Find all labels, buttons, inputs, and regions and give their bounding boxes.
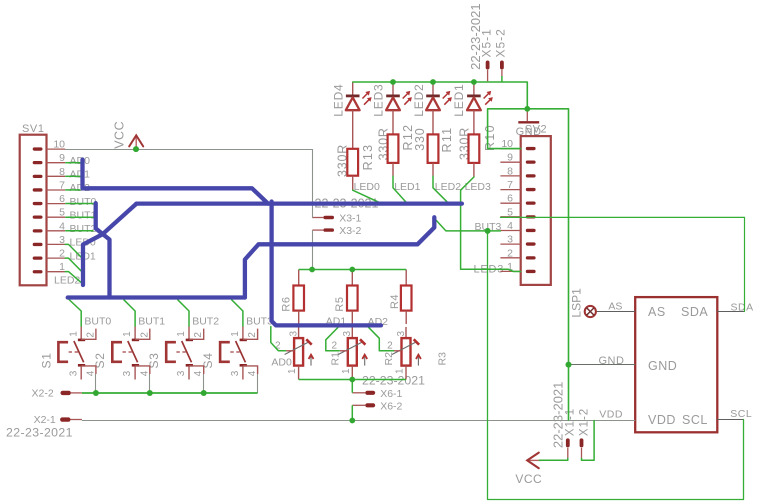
wire pin10 to X3-1 (VCC net) — [65, 150, 312, 218]
wire AD2 from trimmer R3 pin2 to bus — [368, 327, 393, 351]
resistor R10 — [469, 134, 480, 163]
svg-text:4: 4 — [193, 370, 204, 376]
svg-text:VCC: VCC — [113, 121, 127, 149]
svg-text:LED1: LED1 — [452, 83, 466, 116]
resistor R6 — [293, 270, 304, 325]
svg-text:4: 4 — [85, 370, 96, 376]
wire LED1 from R12 into bus — [393, 176, 406, 202]
bus D1 diagonal to LED pins — [83, 204, 137, 285]
svg-text:SCL: SCL — [730, 408, 752, 420]
svg-text:AD0: AD0 — [70, 155, 91, 167]
wire BUT2 — [65, 230, 93, 232]
wire BUT1 from bus to switch S2 — [124, 300, 135, 326]
svg-text:R10: R10 — [483, 124, 497, 151]
wire pad X5-1 — [486, 61, 490, 82]
LED LED2 — [426, 83, 452, 135]
SV1 pin 6 — [33, 202, 43, 205]
SV1 pin 3 — [33, 243, 43, 246]
power symbol VCC (arrow left) — [527, 453, 541, 469]
wire X6-2 down to VDD line — [351, 405, 353, 420]
svg-text:BUT3: BUT3 — [246, 316, 273, 328]
junction R5 rail — [349, 267, 355, 273]
SV2 pin 2 — [526, 256, 536, 259]
svg-text:R3: R3 — [437, 352, 449, 366]
svg-text:22-23-2021: 22-23-2021 — [550, 382, 565, 449]
junction at GND branch — [524, 106, 530, 112]
junction LED2 rail — [430, 79, 436, 85]
svg-text:BUT2: BUT2 — [192, 316, 219, 328]
junction LED1 rail — [471, 79, 477, 85]
svg-text:3: 3 — [122, 370, 133, 376]
wire X3-2 to resistor rail — [312, 230, 314, 269]
pin R10 bottom — [473, 163, 475, 177]
svg-text:X6-2: X6-2 — [380, 401, 402, 413]
wire switch S3 pin4 to X2-2 rail — [203, 374, 205, 393]
SV1 pin 10 — [33, 147, 43, 150]
wire pad X1-2 — [580, 438, 584, 458]
bus V2 from BUT pins — [96, 203, 110, 297]
svg-text:R4: R4 — [389, 294, 401, 309]
SV2 pin 5 — [526, 215, 536, 218]
svg-text:X5-2: X5-2 — [494, 28, 508, 57]
wire X2-1 to IC VDD pin (long) — [82, 420, 635, 422]
SV2 pin 6 — [526, 202, 536, 205]
svg-text:1: 1 — [68, 331, 79, 337]
svg-text:2: 2 — [139, 332, 150, 338]
svg-text:LED1: LED1 — [394, 181, 420, 193]
svg-text:4: 4 — [247, 370, 258, 376]
junction X6-2 VDD line — [349, 418, 355, 424]
svg-text:R11: R11 — [440, 127, 454, 153]
wire X5-2 to rail — [501, 76, 503, 82]
switch S1 — [58, 326, 96, 380]
wire LED1 diagonal — [65, 258, 81, 271]
svg-text:S1: S1 — [39, 352, 53, 368]
junction BUT3 — [485, 228, 491, 234]
junction GND — [566, 362, 572, 368]
connector SV1 body — [20, 135, 47, 286]
trimmer R1 — [285, 327, 314, 380]
svg-text:R6: R6 — [280, 297, 292, 312]
SV1 pin 5 — [33, 216, 43, 219]
svg-text:VDD: VDD — [648, 413, 676, 427]
switch S3 — [166, 326, 204, 380]
svg-text:BUT0: BUT0 — [70, 196, 97, 208]
svg-text:X2-2: X2-2 — [32, 388, 54, 400]
wire resistor top rail — [299, 269, 407, 271]
svg-text:3: 3 — [68, 370, 79, 376]
resistor R12 — [388, 134, 399, 163]
bus H4 bottom horizontal to switches — [68, 295, 245, 299]
wire pad X3-2 — [312, 228, 334, 231]
wire X2-2 rail — [82, 392, 258, 394]
SV2 pin 10 — [526, 147, 536, 150]
svg-text:2: 2 — [387, 341, 393, 352]
wire BUT3 from bus to switch S4 — [232, 300, 243, 326]
svg-text:SV2: SV2 — [525, 123, 548, 135]
wire switch S1 pin4 to X2-2 rail — [95, 374, 97, 393]
svg-text:1: 1 — [230, 331, 241, 337]
SV1 pin 2 — [33, 257, 43, 260]
svg-text:R13: R13 — [361, 144, 375, 171]
resistor R11 — [428, 134, 439, 163]
svg-text:22-23-2021: 22-23-2021 — [362, 374, 425, 388]
svg-text:3: 3 — [176, 370, 187, 376]
bus B2 lower horizontal — [245, 217, 434, 297]
wire AD1 — [65, 175, 80, 177]
trimmer R1 pin numbers — [275, 331, 299, 375]
wire pad X6-1 — [352, 391, 375, 395]
wire AD2 — [65, 189, 80, 191]
wire SDA net from SV2 pin5 to IC — [500, 217, 744, 311]
trimmer R3 — [392, 327, 421, 380]
bus H2 main horizontal — [137, 201, 462, 205]
pin SCL line — [717, 419, 743, 421]
svg-text:4: 4 — [139, 370, 150, 376]
svg-text:X6-1: X6-1 — [380, 388, 402, 400]
svg-text:LED4: LED4 — [332, 83, 346, 116]
wire BUT3/SCL vertical and bottom run — [488, 231, 744, 500]
wire X1-2 to VDD — [582, 421, 595, 461]
svg-text:1: 1 — [287, 368, 298, 374]
connector SV2 body — [521, 136, 551, 285]
SV2 pin 4 — [526, 229, 536, 232]
svg-text:X1-1: X1-1 — [565, 408, 577, 436]
svg-text:22-23-2021: 22-23-2021 — [6, 425, 73, 439]
wire to X6-1 — [351, 380, 353, 393]
wire pad X5-2 — [500, 61, 504, 77]
wire pad X2-2 — [61, 391, 82, 395]
svg-text:LSP1: LSP1 — [569, 288, 583, 318]
svg-text:X1-2: X1-2 — [578, 408, 590, 436]
wire pad X6-2 — [352, 403, 375, 407]
pin R13 bottom — [352, 176, 354, 191]
resistor R5 — [347, 270, 358, 325]
svg-text:AD0: AD0 — [271, 356, 292, 368]
svg-text:3: 3 — [342, 331, 353, 337]
junction VCC — [133, 146, 139, 152]
svg-text:2: 2 — [193, 332, 204, 338]
SV2 pin 1 — [526, 270, 536, 273]
svg-text:3: 3 — [289, 331, 300, 337]
IC U1 inner pin names — [648, 305, 708, 427]
svg-text:1: 1 — [122, 331, 133, 337]
wire AD1 from trimmer R2 pin2 to bus — [326, 327, 339, 350]
wire X1-1 to VCC — [539, 458, 567, 460]
IC U1 body — [635, 297, 717, 432]
svg-text:LED3: LED3 — [372, 83, 386, 116]
pin AS line — [597, 311, 636, 313]
LED LED3 — [386, 83, 412, 135]
junction LED3 rail — [390, 79, 396, 85]
wire LED2 diagonal — [65, 272, 83, 285]
wire pad X1-1 — [566, 438, 570, 458]
svg-text:AS: AS — [648, 305, 666, 319]
wire GND vertical — [527, 109, 568, 420]
pin R11 bottom — [432, 163, 434, 176]
switch S4 pin numbers — [230, 331, 258, 377]
SV2 pin 9 — [526, 161, 536, 164]
svg-text:330: 330 — [413, 127, 427, 150]
junction X3-2 rail — [309, 267, 315, 273]
svg-text:1: 1 — [176, 331, 187, 337]
pin R12 bottom — [392, 163, 394, 176]
svg-text:X2-1: X2-1 — [34, 414, 56, 426]
pin SDA line — [717, 311, 744, 313]
svg-text:VCC: VCC — [515, 472, 542, 486]
svg-text:BUT1: BUT1 — [138, 316, 165, 328]
trimmer R2 pin numbers — [331, 331, 353, 375]
svg-text:3: 3 — [396, 331, 407, 337]
wire switch S2 pin4 to X2-2 rail — [149, 374, 151, 393]
svg-text:SCL: SCL — [682, 413, 708, 427]
wire BUT0 from bus to switch S1 — [69, 300, 81, 327]
wire pad X2-1 — [60, 417, 82, 421]
wire AD0 from trimmer R1 pin2 to bus — [271, 327, 286, 351]
wire pad X3-1 — [312, 216, 334, 219]
wire to SV2 pin10 — [488, 109, 528, 149]
SV2 pin 8 — [526, 174, 536, 177]
SV1 pin 9 — [33, 161, 43, 164]
trimmer R3 pin numbers — [387, 331, 407, 375]
wire LED3 from R10 to SV2 pin 1 — [461, 177, 521, 272]
svg-text:2: 2 — [331, 341, 337, 352]
wire trimmer bottom rail — [299, 379, 406, 381]
svg-text:GND: GND — [648, 359, 677, 373]
wire BUT1 — [65, 216, 93, 218]
wire LED top rail — [353, 82, 528, 109]
switch S2 pin numbers — [122, 331, 150, 377]
wire BUT0 — [65, 203, 93, 205]
svg-text:LED0: LED0 — [354, 181, 380, 193]
SV1 pin 8 — [33, 175, 43, 178]
switch S1 pin numbers — [68, 331, 96, 377]
wire BUT3 net from bus to SV2 pin4 — [434, 218, 500, 231]
SV1 pin 1 — [33, 270, 43, 273]
trimmer R2 — [338, 327, 367, 380]
svg-text:LED2: LED2 — [412, 83, 426, 116]
SV1 pin 7 — [33, 188, 43, 191]
wire LED0 diagonal — [65, 244, 81, 257]
svg-text:R5: R5 — [334, 297, 346, 312]
SV2 pin 3 — [526, 242, 536, 245]
LED LED4 — [346, 83, 372, 149]
svg-text:X3-2: X3-2 — [339, 225, 361, 237]
LED LED1 — [467, 83, 493, 135]
SV2 pin 7 — [526, 188, 536, 191]
ground symbol GND — [518, 109, 539, 123]
SV1 pin 4 — [33, 229, 43, 232]
switch S4 — [220, 326, 258, 380]
svg-text:X3-1: X3-1 — [339, 213, 361, 225]
svg-text:2: 2 — [85, 332, 96, 338]
svg-text:SDA: SDA — [681, 305, 708, 319]
svg-text:SV1: SV1 — [22, 123, 45, 135]
junction S2 — [147, 390, 153, 396]
bus B1 from AD pins — [83, 160, 269, 204]
junction S3 — [201, 390, 207, 396]
svg-text:VDD: VDD — [599, 408, 623, 420]
svg-text:1: 1 — [341, 368, 352, 374]
wire LED0 from R13 into bus — [353, 190, 379, 202]
resistor R13 — [347, 149, 358, 176]
svg-text:AD1: AD1 — [70, 169, 91, 181]
svg-text:3: 3 — [230, 370, 241, 376]
switch S2 — [112, 326, 150, 380]
wire LED2 from R11 into bus — [433, 176, 447, 202]
svg-text:BUT2: BUT2 — [70, 223, 97, 235]
svg-text:LED2: LED2 — [435, 181, 461, 193]
wire switch S4 pin4 to X2-2 rail — [257, 374, 259, 393]
svg-text:BUT0: BUT0 — [84, 316, 111, 328]
svg-text:GND: GND — [599, 355, 625, 367]
power symbol VCC (arrow up) — [129, 135, 143, 148]
svg-text:2: 2 — [247, 332, 258, 338]
bus V3 vertical to AD trimmer bus — [272, 202, 381, 326]
junction S1 — [93, 390, 99, 396]
wire AD0 — [65, 162, 80, 164]
svg-text:BUT1: BUT1 — [70, 209, 97, 221]
svg-text:LED2: LED2 — [54, 275, 80, 287]
svg-text:AS: AS — [608, 300, 622, 312]
test point LSP1 — [585, 306, 596, 317]
wire BUT2 from bus to switch S3 — [178, 300, 189, 326]
junction trimmer rail — [349, 377, 355, 383]
svg-text:X5-1: X5-1 — [479, 28, 493, 57]
resistor R4 — [401, 270, 412, 325]
switch S3 pin numbers — [176, 331, 204, 377]
